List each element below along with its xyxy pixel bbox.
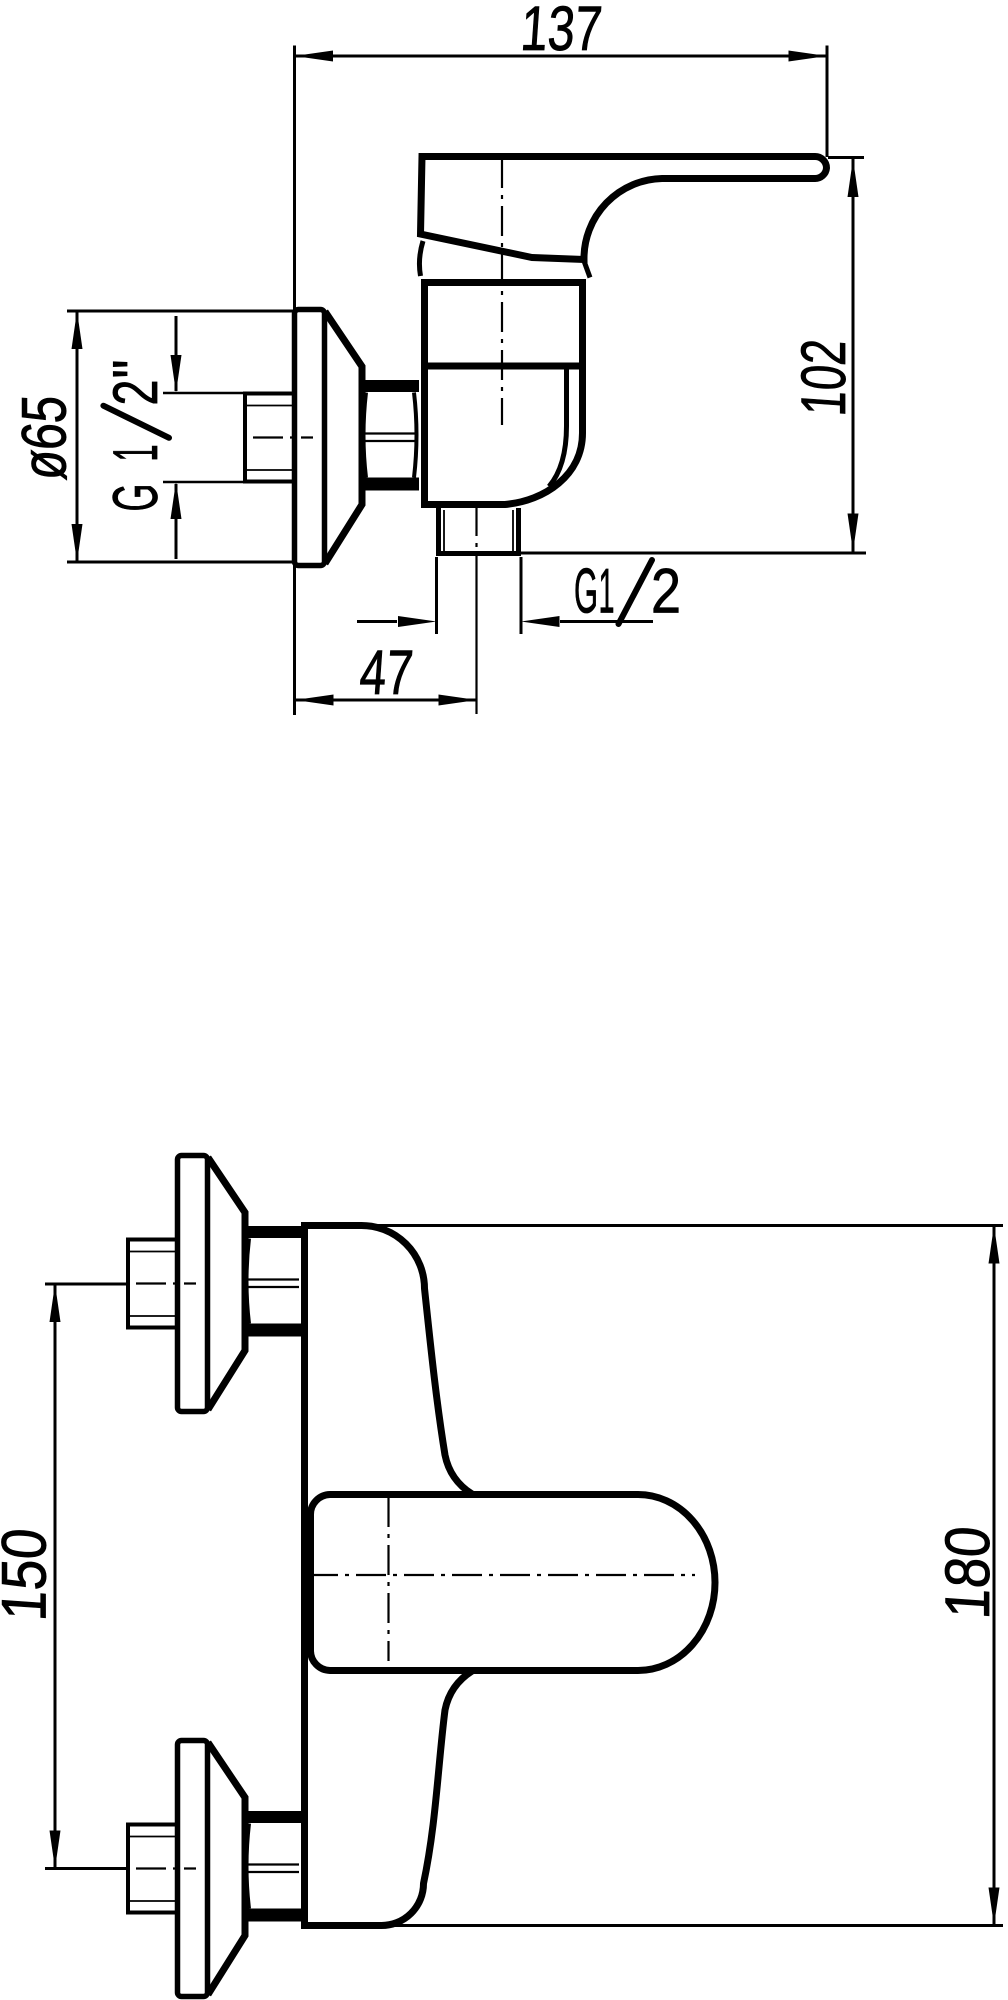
svg-text:2: 2: [101, 380, 171, 406]
svg-text:180: 180: [933, 1524, 1003, 1621]
svg-text:47: 47: [358, 638, 416, 708]
svg-text:102: 102: [789, 337, 859, 418]
svg-text:137: 137: [519, 0, 605, 64]
svg-text:1: 1: [101, 445, 171, 462]
svg-text:2: 2: [651, 557, 681, 627]
svg-text:150: 150: [0, 1526, 59, 1623]
svg-text:1: 1: [599, 557, 615, 627]
svg-text:G: G: [574, 557, 598, 627]
svg-text:ø65: ø65: [10, 393, 80, 482]
svg-text:": ": [101, 360, 171, 379]
svg-text:G: G: [101, 484, 171, 512]
